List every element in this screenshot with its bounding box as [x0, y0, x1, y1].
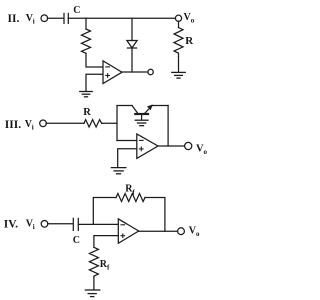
wire feedback right vertical [145, 198, 165, 232]
input terminal Vi circle [41, 221, 48, 228]
label Rf [100, 259, 110, 272]
svg-text:R: R [185, 35, 194, 47]
label Vi [26, 219, 35, 231]
ground (Rf) [85, 290, 99, 297]
svg-text:o: o [196, 230, 200, 238]
wire feedback right vertical [167, 106, 169, 147]
resistor Rf (to ground) [89, 247, 98, 277]
label Vo [196, 143, 208, 156]
svg-text:IV.: IV. [4, 219, 18, 231]
wire base to ground [141, 115, 143, 120]
svg-text:o: o [204, 148, 208, 156]
wire diode to output [131, 48, 133, 72]
transistor Q1 emitter lead with arrow [145, 106, 152, 114]
input terminal Vi circle [41, 15, 48, 22]
wire resistor to inverting input [86, 53, 103, 67]
wire non-inverting input to ground [86, 74, 103, 91]
svg-text:i: i [33, 223, 35, 231]
diode D1 [127, 41, 137, 48]
wire R to ground [178, 57, 180, 72]
wire resistor branch top [85, 18, 87, 29]
resistor R (input) [84, 120, 102, 127]
svg-text:i: i [33, 18, 35, 26]
svg-text:C: C [73, 235, 80, 246]
wire diode branch top [131, 18, 133, 40]
wire input to capacitor [47, 17, 63, 19]
ground (op-amp + input) [80, 92, 92, 97]
wire input to capacitor [48, 223, 73, 225]
output terminal Vo circle [178, 228, 185, 235]
capacitor C [72, 218, 74, 230]
wire op-amp output to Vo [158, 145, 185, 147]
ground (load R) [172, 72, 185, 78]
wire inverting input [117, 140, 137, 142]
svg-text:III.: III. [5, 119, 21, 131]
label Vi [25, 119, 34, 131]
wire op-amp output [122, 71, 148, 73]
input terminal Vi circle [40, 120, 47, 127]
ground (transistor base) [135, 120, 148, 126]
resistor R (load) [174, 28, 183, 57]
output terminal Vo circle [175, 15, 181, 21]
wire Vo to resistor R [178, 21, 180, 27]
wire non-inverting input to ground [118, 149, 137, 167]
resistor Rf (feedback) [116, 194, 145, 202]
wire feedback left vertical [117, 106, 132, 141]
svg-text:o: o [191, 17, 195, 25]
resistor (vertical, to inverting input) [82, 29, 91, 53]
svg-text:II.: II. [8, 13, 20, 25]
svg-text:i: i [32, 123, 34, 131]
label Vi [26, 13, 35, 25]
svg-text:C: C [73, 5, 80, 16]
wire input to resistor [46, 122, 84, 124]
ground (op-amp + input) [111, 168, 126, 174]
label Vo [189, 225, 200, 237]
wire op-amp output to Vo [139, 230, 178, 232]
op-amp U1 [103, 61, 122, 84]
label Vo [184, 12, 195, 24]
label Rf [125, 184, 135, 197]
wire Rf to ground [93, 277, 95, 289]
transistor Q1 base bar [135, 113, 148, 115]
output terminal Vo circle [185, 142, 192, 149]
wire capacitor to inverting input [78, 223, 118, 225]
wire non-inverting input branch [94, 236, 118, 248]
op-amp U2 [137, 134, 158, 158]
svg-text:R: R [83, 107, 91, 118]
capacitor C [63, 13, 65, 23]
wire resistor to node [102, 122, 117, 124]
wire emitter to feedback right [152, 105, 168, 107]
output terminal circle [148, 69, 153, 74]
wire feedback left vertical [93, 198, 116, 225]
wire top rail [68, 17, 175, 19]
op-amp U3 [118, 219, 138, 243]
transistor Q1 collector lead [132, 106, 138, 114]
